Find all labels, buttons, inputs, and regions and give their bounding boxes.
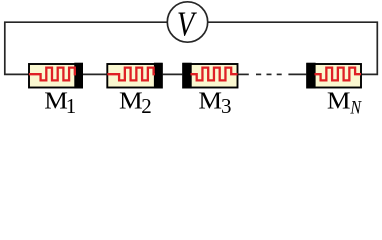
svg-text:M: M bbox=[327, 87, 351, 115]
wire: dash 1 bbox=[256, 73, 261, 75]
wire: M3 lead into dashed continuation bbox=[239, 73, 249, 75]
memristor M1 bbox=[29, 63, 83, 89]
memristor MN bbox=[306, 63, 361, 89]
voltmeter U1 circle bbox=[167, 2, 207, 42]
memristor M3 bbox=[182, 63, 237, 89]
memristor M2 bbox=[107, 63, 162, 89]
wire: left vertical and top-left horizontal to voltmeter bbox=[5, 22, 168, 74]
wire: top-right horizontal from voltmeter and right vertical bbox=[208, 22, 378, 74]
svg-text:M: M bbox=[44, 87, 68, 115]
svg-text:3: 3 bbox=[221, 94, 232, 118]
wire: M1 to M2 bbox=[83, 73, 106, 75]
wire: lead into MN bbox=[288, 73, 306, 75]
wire: dash 2 bbox=[267, 73, 272, 75]
svg-text:M: M bbox=[119, 87, 143, 115]
svg-text:M: M bbox=[198, 87, 222, 115]
svg-text:2: 2 bbox=[141, 94, 152, 118]
svg-text:N: N bbox=[349, 96, 362, 118]
wire: dash 3 bbox=[277, 73, 282, 75]
wire: M2 to M3 bbox=[163, 73, 183, 75]
svg-text:1: 1 bbox=[66, 94, 77, 118]
